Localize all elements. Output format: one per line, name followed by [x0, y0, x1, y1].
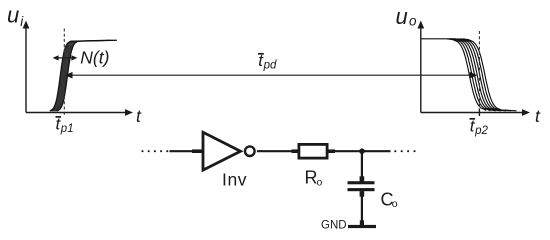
label t_p1 with overbar	[56, 115, 74, 135]
node junction dot	[359, 148, 365, 154]
ground	[348, 225, 376, 228]
dashed line at t_p2	[478, 31, 480, 108]
svg-text:o: o	[409, 13, 417, 28]
wire capacitor to ground	[360, 191, 365, 225]
resistor Ro	[299, 144, 327, 158]
output flat top line	[422, 38, 456, 40]
svg-text:N(t): N(t)	[80, 47, 109, 67]
svg-text:u: u	[396, 4, 408, 29]
svg-text:GND: GND	[321, 219, 347, 231]
inverter U1 triangle	[203, 132, 241, 170]
right graph y-axis	[417, 21, 424, 113]
label t_p2 with overbar	[470, 117, 489, 137]
input edge waveform curves	[51, 40, 116, 111]
left graph y-axis	[23, 21, 30, 113]
svg-text:o: o	[392, 198, 398, 210]
wire output dotted	[394, 150, 415, 152]
capacitor Co bottom plate	[348, 188, 375, 191]
wire input to inverter	[170, 149, 203, 153]
svg-text:t: t	[535, 106, 541, 126]
left graph x-axis	[26, 109, 133, 116]
svg-text:p2: p2	[474, 125, 488, 137]
tick at t_p2	[478, 109, 480, 117]
wire input dotted	[141, 150, 168, 152]
svg-text:Inv: Inv	[222, 170, 247, 190]
svg-text:u: u	[7, 2, 19, 27]
input edge jitter band fill	[50, 45, 74, 111]
capacitor Co top plate	[348, 181, 375, 184]
t_pd delay double arrow	[65, 72, 477, 79]
label t_pd with overbar	[258, 51, 277, 72]
jitter width double arrow N(t)	[53, 55, 78, 60]
wire node to capacitor	[360, 151, 365, 181]
wire inverter to resistor	[257, 149, 299, 153]
svg-text:t: t	[136, 106, 142, 126]
right graph x-axis	[421, 109, 530, 116]
output edge waveform curves	[447, 39, 517, 111]
svg-text:pd: pd	[263, 60, 277, 72]
wire resistor to node	[328, 149, 391, 153]
svg-text:p1: p1	[60, 123, 74, 135]
dashed line at t_p1	[63, 29, 65, 116]
svg-text:o: o	[317, 177, 323, 189]
inverter U1 output bubble	[245, 146, 255, 156]
